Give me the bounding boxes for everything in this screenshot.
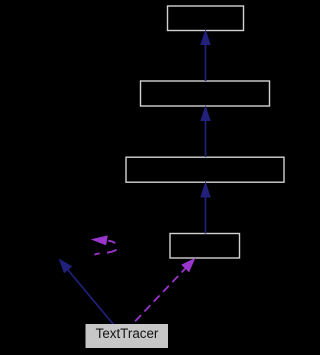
self-loop dash segment 3 (stub into arrowhead) — [108, 241, 115, 244]
svg-text:TextTracer: TextTracer — [96, 326, 159, 341]
self-loop arrowhead — [91, 235, 108, 245]
inheritance arrow TextTracer to invisible base (up-left) — [59, 258, 114, 324]
class box (top, undocumented, empty label) — [168, 6, 244, 31]
class box (second level) — [141, 81, 270, 106]
usage arrow (dashed) TextTracer to box4 — [132, 258, 196, 325]
inheritance arrow box2 to box1 — [200, 29, 211, 81]
self-loop usage arrow on invisible box: dash segment 1 — [94, 253, 99, 254]
inheritance arrow box3 to box2 — [200, 105, 211, 157]
class box (fourth level, small) — [170, 234, 240, 259]
class box (third level) — [126, 157, 284, 182]
self-loop dash segment 2 — [107, 250, 117, 253]
node TextTracer (current class, filled) — [86, 324, 169, 348]
inheritance arrow box4 to box3 — [200, 181, 211, 233]
